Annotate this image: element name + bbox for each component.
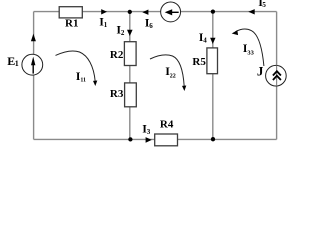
current source top arrow [165,9,179,15]
label I6 [145,15,154,30]
resistor R5 [207,48,218,74]
wire middle branch R2 R3 [129,12,131,140]
resistor R4 [155,134,178,146]
svg-text:R4: R4 [160,118,174,130]
current source top circle [161,2,181,22]
svg-text:4: 4 [203,36,207,44]
svg-text:R2: R2 [110,49,124,61]
current arrow I4 [210,38,215,44]
loop arrow I11 [56,51,98,86]
svg-text:2: 2 [121,29,125,37]
svg-text:1: 1 [104,21,108,29]
svg-text:R5: R5 [192,56,206,68]
current source J double chevron [273,71,281,80]
label E1 [7,54,19,68]
current arrow I6 [142,10,148,15]
svg-text:33: 33 [247,50,254,57]
label I11 [76,69,86,84]
wire top [34,11,277,13]
resistor R2 [124,42,136,66]
label I4 [199,30,208,45]
svg-text:22: 22 [170,73,176,79]
junction dot top middle [128,10,132,14]
svg-text:R3: R3 [110,88,124,100]
wire left [33,12,35,140]
svg-text:3: 3 [147,128,151,136]
label I33 [243,41,255,56]
label I5 [258,0,266,9]
wire bottom [34,138,277,140]
label I3 [142,121,151,136]
voltage source E1 arrow [31,57,35,74]
current arrow I2 [127,30,133,36]
current arrow I1 [101,9,107,14]
loop arrow I33 [232,29,264,66]
label I1 [99,15,108,30]
current arrow I5 [248,9,254,14]
resistor R3 [125,83,137,107]
current arrow I3 [146,137,152,143]
junction dot top right branch [211,9,215,13]
wire branch R5 [212,12,214,140]
svg-text:5: 5 [262,1,266,9]
label I22 [165,64,176,79]
current source J inner wire [276,66,278,86]
arrow up on left wire [31,34,36,42]
current source J circle [266,65,287,86]
junction dot bottom right branch [211,137,215,141]
svg-text:R1: R1 [65,18,78,30]
svg-text:1: 1 [15,59,19,68]
resistor R1 [59,7,82,18]
loop arrow I22 [150,55,186,91]
svg-text:6: 6 [149,22,153,30]
svg-text:11: 11 [80,78,86,84]
voltage source E1 circle [22,54,43,75]
junction dot bottom middle [128,137,132,141]
svg-text:J: J [257,63,264,78]
label I2 [116,23,125,38]
wire right [276,12,278,140]
